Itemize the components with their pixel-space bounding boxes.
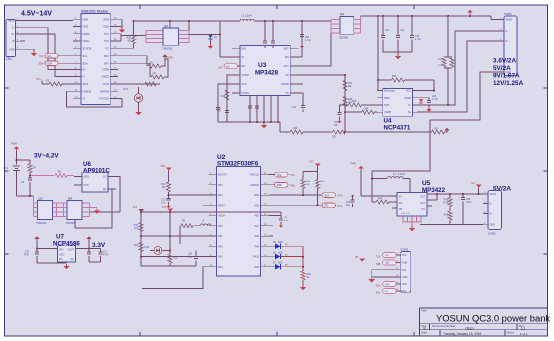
svg-text:R16: R16 [221,96,226,98]
svg-text:PA3: PA3 [218,256,223,259]
svg-text:R22: R22 [293,128,298,130]
svg-text:VSS: VSS [84,184,89,187]
svg-text:R26: R26 [352,101,357,103]
svg-text:VIN: VIN [59,249,63,252]
svg-text:TCK: TCK [277,174,282,177]
svg-text:4.7uF: 4.7uF [305,40,311,42]
svg-text:5V/2A: 5V/2A [493,65,511,72]
svg-text:SDA: SDA [385,283,390,286]
svg-text:NC: NC [71,258,75,261]
svg-text:3.3V: 3.3V [92,242,106,249]
svg-text:TMB: TMB [277,184,283,187]
svg-text:VSS: VSS [254,204,259,207]
svg-text:SCL: SCL [83,55,88,58]
svg-text:5V0: 5V0 [309,161,314,164]
svg-text:4.5V~14V: 4.5V~14V [21,11,52,18]
svg-text:1 of 1: 1 of 1 [520,332,528,336]
svg-text:SYS: SYS [104,33,109,36]
svg-text:SW: SW [285,56,290,59]
svg-text:THERM: THERM [100,90,109,93]
svg-text:Sheet: Sheet [507,330,515,334]
svg-text:C24: C24 [432,96,437,98]
svg-text:C15: C15 [346,202,351,204]
svg-text:IN: IN [242,56,245,59]
svg-text:VBUS: VBUS [490,193,497,196]
svg-text:DS2: DS2 [145,247,150,249]
svg-text:PG: PG [105,47,109,50]
svg-text:GND: GND [83,18,89,21]
svg-text:R21: R21 [332,137,337,139]
svg-text:TSM2302: TSM2302 [36,222,47,225]
svg-text:GND: GND [83,26,89,29]
svg-text:CMD1: CMD1 [83,40,91,43]
svg-text:STAT: STAT [83,83,89,86]
svg-text:3V3: 3V3 [133,206,138,209]
svg-text:R13: R13 [161,184,166,186]
svg-text:PA9: PA9 [254,245,259,248]
svg-text:PWR: PWR [11,142,17,146]
svg-text:TCK: TCK [385,255,390,257]
svg-text:OUT: OUT [420,202,426,205]
svg-text:DO: DO [103,188,107,191]
svg-text:Tuesday, January 19, 2016: Tuesday, January 19, 2016 [443,332,482,336]
svg-text:PA0: PA0 [218,225,223,228]
svg-text:R42: R42 [444,215,449,217]
svg-text:GND: GND [59,253,65,256]
svg-text:R44: R44 [378,199,383,201]
svg-text:0.1u: 0.1u [161,202,166,204]
svg-text:PWR: PWR [167,56,173,60]
svg-text:SCL: SCL [39,55,44,58]
svg-text:USB1: USB1 [504,12,512,16]
svg-text:MP3428: MP3428 [255,70,279,77]
svg-text:D-: D- [490,203,493,206]
svg-text:BOOT0: BOOT0 [218,174,227,177]
svg-text:12V/1.25A: 12V/1.25A [493,80,524,87]
svg-text:C22: C22 [292,107,297,109]
svg-text:D-: D- [506,30,509,33]
svg-text:470k: 470k [443,203,449,205]
svg-text:IN: IN [83,98,86,101]
svg-text:NCP4371: NCP4371 [384,124,411,131]
svg-text:D-: D- [408,104,411,107]
svg-text:L1 1.5uH: L1 1.5uH [241,14,252,18]
svg-text:PF0: PF0 [218,184,223,187]
svg-text:TMB: TMB [290,184,296,187]
svg-text:C14: C14 [400,30,405,32]
svg-text:C16: C16 [415,36,420,38]
svg-text:22uF: 22uF [466,202,472,204]
svg-text:Q4: Q4 [340,12,344,16]
svg-text:BST: BST [284,47,289,50]
svg-text:COMP: COMP [242,74,250,77]
svg-text:SCL: SCL [338,205,343,208]
svg-text:SMB1251 Module: SMB1251 Module [81,10,108,14]
svg-text:Q4: Q4 [68,196,72,200]
svg-text:HGNG: HGNG [242,92,250,95]
svg-text:47uF: 47uF [24,255,30,257]
svg-text:PA4: PA4 [218,266,223,269]
svg-text:OUT: OUT [284,65,290,68]
svg-text:CTRB: CTRB [102,69,109,72]
svg-text:BT1: BT1 [4,167,9,170]
svg-text:7002DW: 7002DW [339,37,349,40]
svg-text:R16: R16 [127,38,132,40]
svg-text:GND: GND [103,26,109,29]
svg-text:1.1: 1.1 [521,326,526,330]
svg-text:SDA: SDA [39,63,44,66]
svg-text:R19: R19 [307,274,312,276]
svg-text:TSM2302: TSM2302 [66,222,77,225]
svg-text:VBUS: VBUS [506,19,513,22]
svg-text:GP: GP [471,182,475,185]
svg-text:BAT: BAT [104,62,109,65]
svg-text:SYSON: SYSON [83,47,92,50]
svg-text:U5: U5 [422,180,431,187]
svg-text:R17: R17 [348,83,353,85]
svg-text:Title: Title [421,309,427,313]
svg-text:C10: C10 [188,254,193,256]
svg-text:VCC: VCC [242,83,247,86]
svg-text:U3: U3 [258,62,267,69]
svg-text:9V/1.67A: 9V/1.67A [493,73,520,80]
svg-text:<Doc>: <Doc> [465,326,475,330]
svg-text:Document Number: Document Number [432,324,456,328]
svg-text:TCK: TCK [290,174,295,177]
svg-text:C13: C13 [161,199,166,201]
svg-text:SWCLK: SWCLK [250,174,259,177]
svg-text:5V0: 5V0 [402,269,407,272]
svg-text:GND2: GND2 [404,97,411,100]
svg-text:DM/2: DM/2 [384,97,390,100]
svg-text:R28: R28 [364,109,369,111]
svg-text:C14: C14 [25,252,30,254]
svg-text:Date:: Date: [421,330,428,334]
svg-text:CMD0: CMD0 [83,33,91,36]
svg-text:5V0: 5V0 [162,206,167,209]
svg-text:VCC: VCC [406,90,411,93]
svg-text:TCK: TCK [376,255,381,258]
svg-text:YOSUN QC3.0 power bank: YOSUN QC3.0 power bank [436,312,550,323]
svg-text:PA1: PA1 [218,235,223,238]
svg-text:EN1: EN1 [242,47,247,50]
svg-text:SYS: SYS [104,40,109,43]
svg-text:PB1: PB1 [254,215,259,218]
svg-text:GND: GND [490,224,496,227]
svg-text:DS1: DS1 [123,88,128,91]
svg-text:C26: C26 [466,199,471,201]
svg-text:C20: C20 [305,37,310,39]
svg-text:PA7: PA7 [254,225,259,228]
svg-text:R12: R12 [173,258,178,260]
svg-text:SDA: SDA [47,63,52,66]
svg-text:NRST: NRST [218,204,225,207]
svg-text:C21: C21 [334,122,339,124]
svg-text:5B: 5B [355,257,358,259]
svg-text:VDD: VDD [254,194,259,197]
svg-text:PA6: PA6 [254,235,259,238]
svg-text:ID: ID [12,40,15,43]
svg-text:GND: GND [103,18,109,21]
svg-text:TMB: TMB [375,263,380,266]
svg-text:IN: IN [399,196,402,199]
svg-text:OUT: OUT [420,196,426,199]
svg-text:NTC: NTC [36,77,41,81]
svg-text:COMP: COMP [384,111,392,114]
svg-text:EN: EN [226,66,230,69]
svg-text:R23: R23 [434,129,439,131]
svg-text:C13: C13 [385,30,390,32]
svg-text:USBCB: USBCB [83,90,92,93]
svg-text:TCK: TCK [402,254,407,257]
svg-text:D-: D- [83,76,86,79]
svg-text:SDA: SDA [402,283,407,286]
svg-text:EN: EN [219,67,223,70]
svg-text:PA5: PA5 [254,266,259,269]
svg-text:TSM2302: TSM2302 [162,48,173,51]
svg-text:47uF: 47uF [103,255,109,257]
svg-text:FB: FB [286,74,290,77]
svg-text:VOUT: VOUT [67,249,74,252]
svg-text:PA2: PA2 [218,245,223,248]
svg-text:R10: R10 [134,225,139,227]
svg-text:3V~4.2V: 3V~4.2V [34,153,59,160]
svg-text:SCL: SCL [47,55,52,58]
svg-text:FB: FB [399,208,402,211]
svg-text:C17: C17 [103,252,108,254]
svg-text:4.7uF: 4.7uF [432,99,438,101]
svg-text:SCL: SCL [324,205,329,208]
svg-text:SDA: SDA [324,194,329,197]
svg-text:1.5uH: 1.5uH [398,173,405,176]
svg-text:EN: EN [242,65,246,68]
svg-text:CO: CO [103,176,107,179]
svg-text:PF1: PF1 [218,194,223,197]
svg-text:VBUS: VBUS [8,20,15,23]
svg-text:SS: SS [285,92,289,95]
svg-text:TMB: TMB [402,262,407,265]
svg-text:3.6V/2A: 3.6V/2A [493,58,516,65]
svg-text:SCL: SCL [402,290,407,293]
svg-text:SDA: SDA [338,195,343,198]
svg-text:CN1: CN1 [6,57,13,61]
svg-text:OLIM: OLIM [103,83,109,86]
svg-text:SCB: SCB [384,104,389,107]
svg-text:PGOOD: PGOOD [99,98,109,101]
svg-text:EN: EN [59,258,63,261]
svg-text:VDDA: VDDA [218,215,225,218]
svg-text:Q2: Q2 [164,24,168,28]
svg-text:D-: D- [12,27,15,30]
svg-text:G G G G: G G G G [401,213,410,215]
svg-text:SDA: SDA [83,62,88,65]
svg-text:GND: GND [9,48,15,51]
svg-text:GNDD: GNDD [101,76,109,79]
svg-text:SCL: SCL [376,291,381,294]
svg-text:D+: D+ [83,69,87,72]
svg-text:SWDIO: SWDIO [251,184,260,187]
svg-text:4.7uF: 4.7uF [415,39,421,41]
svg-text:Discharge: Discharge [384,90,395,93]
svg-text:USB2: USB2 [488,232,496,236]
svg-text:PG: PG [422,208,426,211]
svg-text:R24: R24 [392,75,397,78]
svg-text:R41: R41 [444,200,449,202]
svg-text:MODE: MODE [281,83,289,86]
svg-text:TMB: TMB [385,263,390,265]
svg-text:SDA: SDA [376,284,381,287]
svg-text:Q3: Q3 [39,196,43,200]
svg-text:PWR: PWR [350,163,356,166]
svg-text:CON3: CON3 [400,247,409,251]
svg-text:PA10: PA10 [253,256,260,259]
svg-text:GND: GND [402,276,408,279]
svg-text:VDD: VDD [84,176,89,179]
svg-text:BAT: BAT [104,55,109,58]
svg-text:5B0: 5B0 [161,166,166,168]
svg-text:EN: EN [399,202,403,205]
